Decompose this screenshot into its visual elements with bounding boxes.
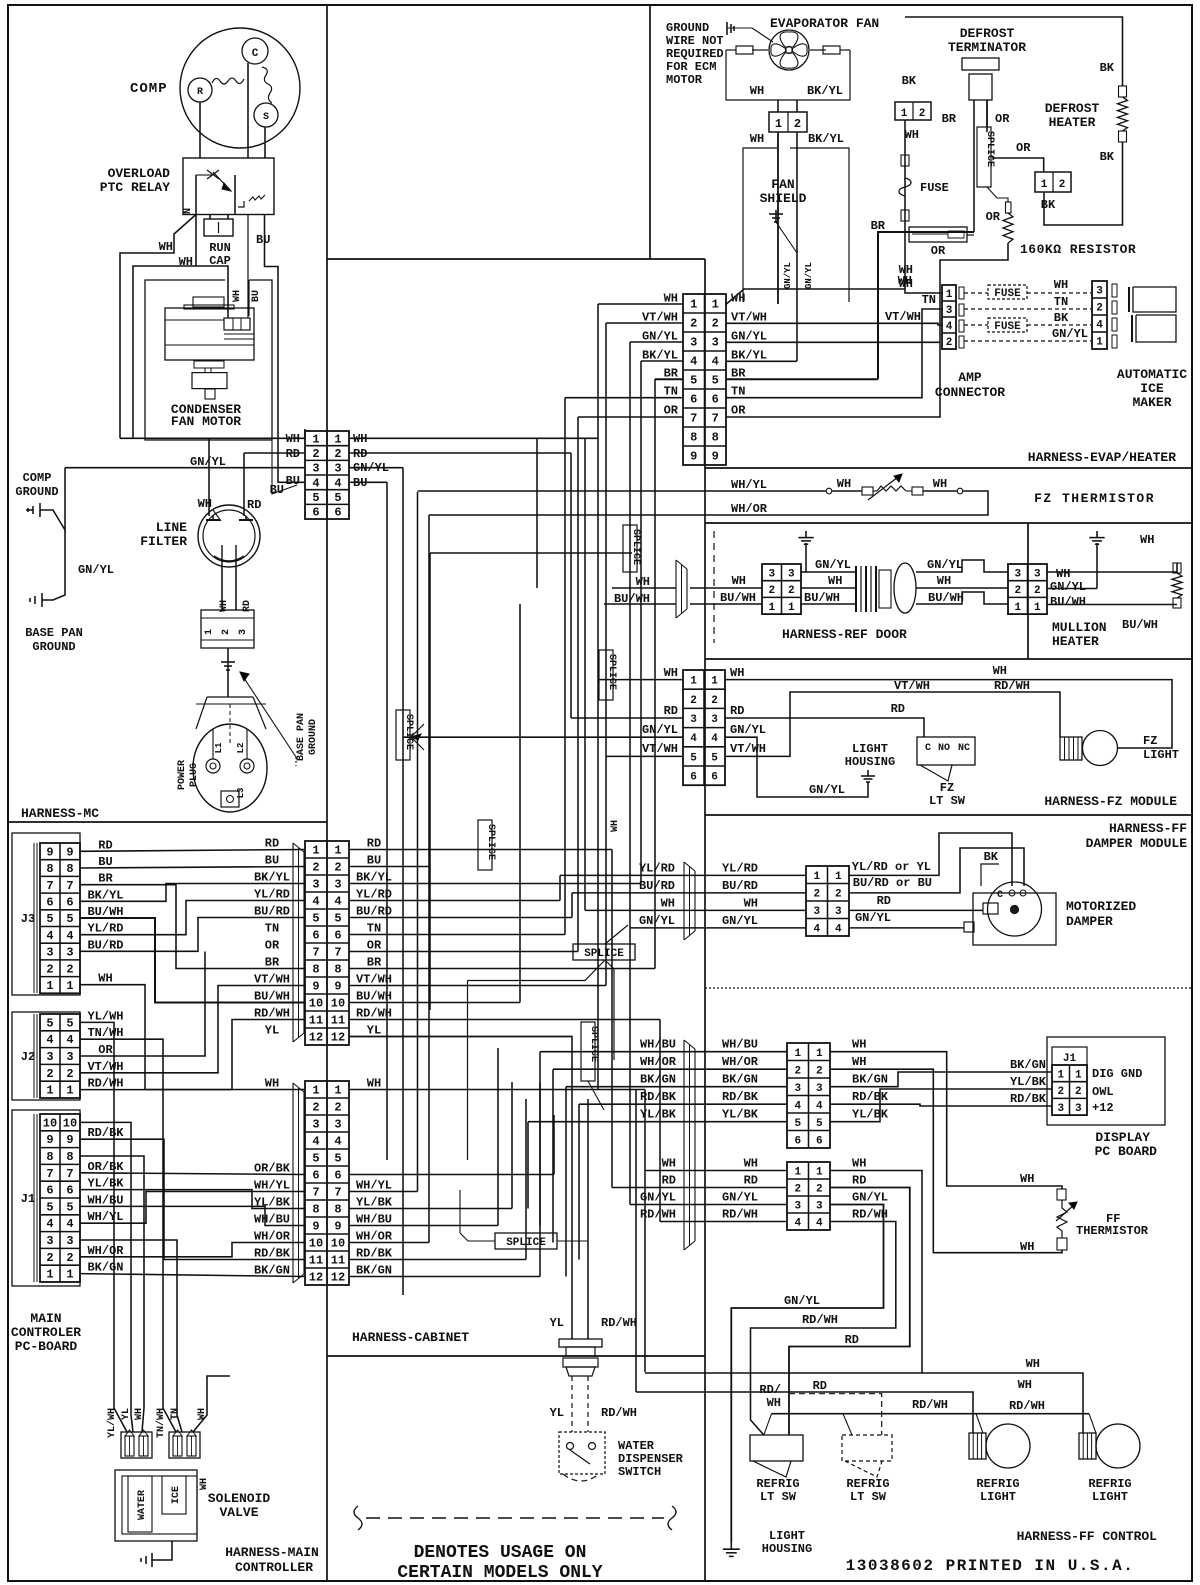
svg-text:BU: BU bbox=[251, 290, 262, 302]
svg-text:RD/WH: RD/WH bbox=[1009, 1399, 1045, 1413]
svg-text:HARNESS-FF CONTROL: HARNESS-FF CONTROL bbox=[1017, 1529, 1158, 1544]
svg-text:PLUG: PLUG bbox=[189, 763, 200, 787]
svg-text:J1: J1 bbox=[21, 1192, 35, 1206]
svg-text:PC-BOARD: PC-BOARD bbox=[15, 1339, 78, 1354]
svg-text:6: 6 bbox=[334, 929, 341, 943]
svg-text:RD: RD bbox=[891, 702, 905, 716]
svg-text:PC BOARD: PC BOARD bbox=[1095, 1144, 1158, 1159]
svg-text:5: 5 bbox=[334, 912, 341, 926]
svg-text:12: 12 bbox=[331, 1271, 345, 1285]
svg-text:NC: NC bbox=[958, 743, 970, 754]
svg-text:GN/YL: GN/YL bbox=[852, 1191, 888, 1205]
svg-text:BU/RD or BU: BU/RD or BU bbox=[853, 876, 932, 890]
svg-text:4: 4 bbox=[66, 1217, 73, 1231]
svg-text:2: 2 bbox=[946, 337, 953, 349]
svg-text:SPLICE: SPLICE bbox=[606, 654, 617, 690]
svg-text:2: 2 bbox=[768, 585, 775, 597]
svg-text:2: 2 bbox=[334, 447, 341, 461]
svg-text:GROUND: GROUND bbox=[32, 640, 75, 654]
svg-text:GN/YL: GN/YL bbox=[784, 1294, 820, 1308]
svg-text:ICE: ICE bbox=[171, 1486, 182, 1504]
svg-text:5: 5 bbox=[66, 1016, 73, 1030]
svg-text:2: 2 bbox=[312, 447, 319, 461]
svg-text:LIGHT: LIGHT bbox=[769, 1529, 805, 1543]
svg-text:ICE: ICE bbox=[1140, 381, 1164, 396]
svg-text:WH: WH bbox=[1020, 1172, 1034, 1186]
svg-text:10: 10 bbox=[63, 1116, 77, 1130]
svg-text:WH: WH bbox=[730, 666, 744, 680]
svg-text:WH/BU: WH/BU bbox=[254, 1213, 290, 1227]
svg-text:2: 2 bbox=[919, 108, 926, 120]
svg-text:7: 7 bbox=[66, 1167, 73, 1181]
svg-text:1: 1 bbox=[1014, 602, 1021, 614]
svg-text:1: 1 bbox=[816, 1048, 823, 1060]
svg-text:WH: WH bbox=[993, 664, 1007, 678]
svg-text:GN/YL: GN/YL bbox=[722, 914, 758, 928]
svg-text:3: 3 bbox=[768, 568, 775, 580]
svg-text:2: 2 bbox=[1075, 1086, 1082, 1098]
svg-text:11: 11 bbox=[331, 1254, 345, 1268]
svg-text:R: R bbox=[197, 87, 203, 98]
svg-text:4: 4 bbox=[711, 733, 718, 745]
svg-text:2: 2 bbox=[1014, 585, 1021, 597]
svg-text:YL/RD: YL/RD bbox=[722, 861, 758, 875]
svg-text:9: 9 bbox=[66, 1133, 73, 1147]
svg-text:RD: RD bbox=[286, 447, 300, 461]
svg-text:RUN: RUN bbox=[209, 241, 231, 255]
svg-text:BU: BU bbox=[98, 855, 112, 869]
svg-text:9: 9 bbox=[334, 1220, 341, 1234]
svg-text:VT/WH: VT/WH bbox=[254, 973, 290, 987]
svg-text:WH: WH bbox=[610, 820, 621, 832]
svg-text:C: C bbox=[997, 890, 1003, 901]
svg-text:FAN: FAN bbox=[771, 177, 794, 192]
svg-text:1: 1 bbox=[788, 602, 795, 614]
svg-text:FUSE: FUSE bbox=[994, 288, 1021, 300]
svg-text:10: 10 bbox=[331, 997, 345, 1011]
svg-text:WH: WH bbox=[898, 274, 912, 288]
svg-text:SPLICE: SPLICE bbox=[584, 948, 624, 960]
svg-text:6: 6 bbox=[690, 393, 697, 407]
svg-text:7: 7 bbox=[46, 1167, 53, 1181]
svg-text:3: 3 bbox=[788, 568, 795, 580]
svg-text:2: 2 bbox=[334, 861, 341, 875]
svg-text:BR: BR bbox=[367, 956, 382, 970]
svg-text:11: 11 bbox=[309, 1254, 323, 1268]
svg-text:WH: WH bbox=[750, 132, 764, 146]
svg-text:FUSE: FUSE bbox=[994, 321, 1021, 333]
svg-text:RD/WH: RD/WH bbox=[601, 1406, 637, 1420]
svg-text:5: 5 bbox=[312, 912, 319, 926]
svg-text:WH: WH bbox=[265, 1077, 279, 1091]
svg-text:CONTROLLER: CONTROLLER bbox=[235, 1560, 313, 1575]
svg-text:1: 1 bbox=[794, 1048, 801, 1060]
svg-text:1: 1 bbox=[46, 1268, 53, 1282]
svg-text:S: S bbox=[263, 112, 269, 123]
svg-text:RD/BK: RD/BK bbox=[254, 1247, 291, 1261]
svg-text:WH: WH bbox=[198, 497, 212, 511]
svg-text:YL: YL bbox=[550, 1406, 564, 1420]
svg-text:9: 9 bbox=[46, 1133, 53, 1147]
svg-text:RD/WH: RD/WH bbox=[87, 1077, 123, 1091]
svg-text:7: 7 bbox=[312, 1186, 319, 1200]
svg-text:FILTER: FILTER bbox=[140, 534, 187, 549]
svg-text:RD/WH: RD/WH bbox=[912, 1398, 948, 1412]
svg-text:DAMPER: DAMPER bbox=[1066, 914, 1113, 929]
svg-text:GROUND: GROUND bbox=[15, 485, 58, 499]
svg-text:10: 10 bbox=[309, 997, 323, 1011]
svg-text:3: 3 bbox=[312, 462, 319, 476]
svg-text:HARNESS-MC: HARNESS-MC bbox=[21, 806, 99, 821]
svg-text:BK/YL: BK/YL bbox=[87, 888, 123, 902]
svg-text:1: 1 bbox=[66, 979, 73, 993]
svg-text:OR: OR bbox=[1016, 141, 1031, 155]
svg-text:C: C bbox=[252, 48, 259, 60]
svg-text:RD: RD bbox=[662, 1174, 676, 1188]
svg-text:BU/RD: BU/RD bbox=[639, 879, 675, 893]
svg-text:2: 2 bbox=[1059, 179, 1066, 191]
svg-text:5: 5 bbox=[334, 491, 341, 505]
svg-text:12: 12 bbox=[309, 1271, 323, 1285]
svg-text:10: 10 bbox=[331, 1237, 345, 1251]
svg-text:WH/YL: WH/YL bbox=[254, 1179, 290, 1193]
svg-text:4: 4 bbox=[334, 476, 341, 490]
svg-text:WH: WH bbox=[664, 666, 678, 680]
svg-text:6: 6 bbox=[312, 929, 319, 943]
svg-text:SPLICE: SPLICE bbox=[506, 1237, 546, 1249]
svg-text:6: 6 bbox=[712, 393, 719, 407]
svg-text:10: 10 bbox=[309, 1237, 323, 1251]
svg-text:4: 4 bbox=[816, 1218, 823, 1230]
svg-text:TN/WH: TN/WH bbox=[87, 1026, 123, 1040]
svg-text:DISPENSER: DISPENSER bbox=[618, 1452, 684, 1466]
svg-text:OWL: OWL bbox=[1092, 1085, 1114, 1099]
svg-text:WH: WH bbox=[98, 972, 112, 986]
svg-text:8: 8 bbox=[712, 431, 719, 445]
svg-text:GN/YL: GN/YL bbox=[1050, 580, 1086, 594]
svg-text:VT/WH: VT/WH bbox=[731, 310, 767, 324]
svg-text:5: 5 bbox=[712, 374, 719, 388]
svg-text:BK: BK bbox=[1041, 198, 1056, 212]
svg-text:1: 1 bbox=[312, 844, 319, 858]
svg-text:1: 1 bbox=[66, 1268, 73, 1282]
svg-text:DEFROST: DEFROST bbox=[960, 26, 1015, 41]
svg-text:BR: BR bbox=[265, 956, 280, 970]
svg-text:2: 2 bbox=[46, 962, 53, 976]
svg-text:LT SW: LT SW bbox=[850, 1490, 887, 1504]
svg-text:WATER: WATER bbox=[618, 1439, 655, 1453]
svg-text:WH/YL: WH/YL bbox=[731, 478, 767, 492]
svg-text:MOTORIZED: MOTORIZED bbox=[1066, 899, 1136, 914]
svg-text:N: N bbox=[183, 208, 194, 214]
svg-text:C: C bbox=[925, 743, 931, 754]
svg-text:1: 1 bbox=[334, 844, 341, 858]
svg-text:BU/WH: BU/WH bbox=[254, 990, 290, 1004]
svg-text:LINE: LINE bbox=[156, 520, 187, 535]
svg-text:1: 1 bbox=[312, 1084, 319, 1098]
svg-text:FOR ECM: FOR ECM bbox=[666, 60, 716, 74]
svg-text:1: 1 bbox=[1096, 337, 1103, 349]
svg-text:3: 3 bbox=[46, 1050, 53, 1064]
svg-text:WH: WH bbox=[664, 291, 678, 305]
svg-text:RD/BK: RD/BK bbox=[722, 1090, 759, 1104]
svg-text:YL/RD: YL/RD bbox=[254, 888, 290, 902]
svg-text:BASE PAN: BASE PAN bbox=[296, 713, 307, 761]
svg-text:12: 12 bbox=[331, 1031, 345, 1045]
svg-text:WH: WH bbox=[232, 290, 243, 302]
svg-text:LIGHT: LIGHT bbox=[852, 742, 888, 756]
svg-text:1: 1 bbox=[46, 979, 53, 993]
svg-text:REFRIG: REFRIG bbox=[1088, 1477, 1131, 1491]
svg-text:7: 7 bbox=[46, 879, 53, 893]
svg-text:TN: TN bbox=[367, 922, 381, 936]
svg-text:WH: WH bbox=[744, 1157, 758, 1171]
svg-text:2: 2 bbox=[46, 1251, 53, 1265]
svg-text:VT/WH: VT/WH bbox=[642, 742, 678, 756]
svg-text:5: 5 bbox=[690, 752, 697, 764]
svg-text:BASE PAN: BASE PAN bbox=[25, 626, 83, 640]
svg-text:GN/YL: GN/YL bbox=[731, 329, 767, 343]
svg-text:REFRIG: REFRIG bbox=[756, 1477, 799, 1491]
svg-text:TN: TN bbox=[265, 922, 279, 936]
svg-text:WH: WH bbox=[732, 574, 746, 588]
svg-text:1: 1 bbox=[712, 298, 719, 312]
svg-text:8: 8 bbox=[690, 431, 697, 445]
svg-text:3: 3 bbox=[312, 878, 319, 892]
svg-text:160KΩ RESISTOR: 160KΩ RESISTOR bbox=[1020, 242, 1136, 257]
svg-text:RD/BK: RD/BK bbox=[640, 1090, 677, 1104]
svg-text:WH/YL: WH/YL bbox=[356, 1179, 392, 1193]
svg-text:DENOTES USAGE ON: DENOTES USAGE ON bbox=[414, 1543, 587, 1563]
svg-text:8: 8 bbox=[66, 862, 73, 876]
svg-text:MAIN: MAIN bbox=[30, 1311, 61, 1326]
svg-text:5: 5 bbox=[46, 1016, 53, 1030]
svg-text:4: 4 bbox=[690, 733, 697, 745]
svg-text:GN/YL: GN/YL bbox=[815, 558, 851, 572]
svg-text:WH: WH bbox=[636, 575, 650, 589]
svg-text:3: 3 bbox=[813, 906, 820, 918]
svg-text:6: 6 bbox=[711, 772, 718, 784]
svg-text:3: 3 bbox=[690, 714, 697, 726]
svg-text:1: 1 bbox=[768, 602, 775, 614]
svg-text:GN/YL: GN/YL bbox=[640, 1191, 676, 1205]
svg-text:1: 1 bbox=[946, 289, 953, 301]
svg-text:4: 4 bbox=[46, 929, 53, 943]
svg-text:DIG GND: DIG GND bbox=[1092, 1067, 1142, 1081]
svg-text:REFRIG: REFRIG bbox=[976, 1477, 1019, 1491]
svg-text:6: 6 bbox=[690, 772, 697, 784]
svg-text:8: 8 bbox=[312, 963, 319, 977]
svg-text:BK/YL: BK/YL bbox=[807, 84, 843, 98]
svg-text:1: 1 bbox=[334, 432, 341, 446]
svg-text:3: 3 bbox=[1096, 286, 1103, 298]
svg-text:2: 2 bbox=[1057, 1086, 1064, 1098]
svg-text:4: 4 bbox=[312, 476, 319, 490]
svg-text:2: 2 bbox=[1096, 303, 1103, 315]
svg-text:GN/YL: GN/YL bbox=[730, 723, 766, 737]
svg-text:HARNESS-FF: HARNESS-FF bbox=[1109, 821, 1187, 836]
svg-text:BU/WH: BU/WH bbox=[928, 591, 964, 605]
svg-text:BK/GN: BK/GN bbox=[722, 1073, 758, 1087]
svg-text:RD: RD bbox=[845, 1333, 859, 1347]
svg-text:7: 7 bbox=[334, 946, 341, 960]
svg-text:SHIELD: SHIELD bbox=[760, 191, 807, 206]
svg-text:3: 3 bbox=[794, 1083, 801, 1095]
svg-text:BK/GN: BK/GN bbox=[852, 1073, 888, 1087]
svg-text:9: 9 bbox=[66, 845, 73, 859]
svg-text:WH/BU: WH/BU bbox=[640, 1038, 676, 1052]
svg-text:2: 2 bbox=[794, 1184, 801, 1196]
svg-text:RD/BK: RD/BK bbox=[1010, 1092, 1047, 1106]
svg-text:3: 3 bbox=[1014, 568, 1021, 580]
svg-text:FZ: FZ bbox=[940, 781, 954, 795]
svg-text:WH: WH bbox=[852, 1038, 866, 1052]
svg-text:7: 7 bbox=[690, 412, 697, 426]
svg-text:BU/WH: BU/WH bbox=[804, 591, 840, 605]
svg-text:1: 1 bbox=[711, 676, 718, 688]
svg-text:WH: WH bbox=[837, 477, 851, 491]
svg-text:HOUSING: HOUSING bbox=[845, 755, 895, 769]
svg-text:WH: WH bbox=[933, 477, 947, 491]
svg-text:2: 2 bbox=[813, 888, 820, 900]
svg-text:GN/YL: GN/YL bbox=[642, 329, 678, 343]
svg-text:HEATER: HEATER bbox=[1052, 634, 1099, 649]
svg-text:3: 3 bbox=[312, 1118, 319, 1132]
svg-text:3: 3 bbox=[46, 946, 53, 960]
svg-text:SPLICE: SPLICE bbox=[630, 529, 641, 565]
svg-text:WH: WH bbox=[937, 574, 951, 588]
svg-text:VT/WH: VT/WH bbox=[87, 1060, 123, 1074]
svg-text:1: 1 bbox=[1057, 1069, 1064, 1081]
svg-text:YL/BK: YL/BK bbox=[1010, 1075, 1047, 1089]
svg-text:WH/OR: WH/OR bbox=[640, 1055, 677, 1069]
svg-text:MAKER: MAKER bbox=[1132, 395, 1171, 410]
svg-text:5: 5 bbox=[66, 912, 73, 926]
svg-text:BU/WH: BU/WH bbox=[87, 905, 123, 919]
svg-text:5: 5 bbox=[690, 374, 697, 388]
svg-text:12: 12 bbox=[309, 1031, 323, 1045]
svg-text:BK/GN: BK/GN bbox=[87, 1261, 123, 1275]
svg-text:BU: BU bbox=[286, 474, 300, 488]
svg-text:11: 11 bbox=[331, 1014, 345, 1028]
svg-text:BK/YL: BK/YL bbox=[642, 348, 678, 362]
svg-text:WH: WH bbox=[744, 896, 758, 910]
svg-text:GN/YL: GN/YL bbox=[927, 558, 963, 572]
svg-text:WH/BU: WH/BU bbox=[356, 1213, 392, 1227]
svg-text:9: 9 bbox=[46, 845, 53, 859]
svg-text:L2: L2 bbox=[236, 743, 246, 754]
svg-text:BU/RD: BU/RD bbox=[87, 938, 123, 952]
svg-text:GROUND: GROUND bbox=[666, 21, 709, 35]
svg-text:VALVE: VALVE bbox=[219, 1505, 258, 1520]
svg-text:2: 2 bbox=[816, 1065, 823, 1077]
svg-text:BU/RD: BU/RD bbox=[722, 879, 758, 893]
svg-text:6: 6 bbox=[46, 1184, 53, 1198]
svg-text:TERMINATOR: TERMINATOR bbox=[948, 40, 1026, 55]
svg-text:1: 1 bbox=[835, 871, 842, 883]
svg-text:J2: J2 bbox=[21, 1050, 35, 1064]
svg-text:5: 5 bbox=[794, 1118, 801, 1130]
svg-text:HEATER: HEATER bbox=[1049, 115, 1096, 130]
svg-text:4: 4 bbox=[46, 1033, 53, 1047]
svg-text:11: 11 bbox=[309, 1014, 323, 1028]
svg-text:THERMISTOR: THERMISTOR bbox=[1076, 1224, 1149, 1238]
svg-text:RD/BK: RD/BK bbox=[356, 1247, 393, 1261]
svg-text:5: 5 bbox=[334, 1152, 341, 1166]
svg-text:2: 2 bbox=[221, 629, 232, 635]
svg-text:SPLICE: SPLICE bbox=[588, 1026, 599, 1062]
svg-text:3: 3 bbox=[334, 462, 341, 476]
svg-text:WATER: WATER bbox=[137, 1490, 148, 1520]
svg-text:YL/BK: YL/BK bbox=[722, 1108, 759, 1122]
svg-text:LIGHT: LIGHT bbox=[980, 1490, 1016, 1504]
svg-text:WH: WH bbox=[1056, 567, 1070, 581]
svg-text:6: 6 bbox=[794, 1135, 801, 1147]
svg-text:YL/WH: YL/WH bbox=[87, 1009, 123, 1023]
svg-text:BU/WH: BU/WH bbox=[1122, 618, 1158, 632]
svg-text:BU/RD: BU/RD bbox=[254, 905, 290, 919]
svg-text:4: 4 bbox=[712, 355, 719, 369]
svg-text:6: 6 bbox=[46, 895, 53, 909]
svg-text:3: 3 bbox=[66, 946, 73, 960]
svg-text:2: 2 bbox=[46, 1067, 53, 1081]
svg-text:9: 9 bbox=[312, 980, 319, 994]
svg-text:6: 6 bbox=[334, 506, 341, 520]
svg-text:GN/YL: GN/YL bbox=[809, 783, 845, 797]
svg-text:HARNESS-EVAP/HEATER: HARNESS-EVAP/HEATER bbox=[1028, 450, 1176, 465]
svg-text:2: 2 bbox=[66, 1251, 73, 1265]
svg-text:YL/BK: YL/BK bbox=[640, 1108, 677, 1122]
svg-text:BU/WH: BU/WH bbox=[720, 591, 756, 605]
svg-text:4: 4 bbox=[946, 321, 953, 333]
svg-text:HARNESS-FZ MODULE: HARNESS-FZ MODULE bbox=[1044, 794, 1177, 809]
svg-text:AUTOMATIC: AUTOMATIC bbox=[1117, 367, 1187, 382]
svg-text:5: 5 bbox=[711, 752, 718, 764]
svg-text:WH/OR: WH/OR bbox=[87, 1244, 124, 1258]
svg-text:WH: WH bbox=[661, 896, 675, 910]
svg-text:BK: BK bbox=[984, 850, 999, 864]
svg-text:WH: WH bbox=[1054, 278, 1068, 292]
svg-text:7: 7 bbox=[334, 1186, 341, 1200]
svg-text:WH: WH bbox=[1140, 533, 1154, 547]
svg-text:1: 1 bbox=[794, 1167, 801, 1179]
svg-text:GN/YL: GN/YL bbox=[804, 262, 814, 289]
svg-text:RD: RD bbox=[730, 704, 744, 718]
svg-text:4: 4 bbox=[794, 1218, 801, 1230]
svg-text:1: 1 bbox=[1034, 602, 1041, 614]
svg-text:OR: OR bbox=[367, 939, 382, 953]
svg-text:2: 2 bbox=[312, 1101, 319, 1115]
svg-text:3: 3 bbox=[238, 629, 249, 635]
svg-text:4: 4 bbox=[46, 1217, 53, 1231]
svg-text:YL: YL bbox=[265, 1024, 279, 1038]
svg-text:FAN MOTOR: FAN MOTOR bbox=[171, 414, 241, 429]
svg-text:GN/YL: GN/YL bbox=[642, 723, 678, 737]
svg-text:FZ: FZ bbox=[1143, 734, 1157, 748]
svg-text:SPLICE: SPLICE bbox=[485, 824, 496, 860]
svg-text:GN/YL: GN/YL bbox=[78, 563, 114, 577]
svg-text:SPLICE: SPLICE bbox=[984, 131, 995, 167]
svg-text:GN/YL: GN/YL bbox=[722, 1191, 758, 1205]
svg-text:4: 4 bbox=[66, 929, 73, 943]
svg-text:J3: J3 bbox=[21, 912, 35, 926]
svg-text:8: 8 bbox=[334, 1203, 341, 1217]
svg-text:2: 2 bbox=[690, 695, 697, 707]
svg-text:5: 5 bbox=[66, 1200, 73, 1214]
svg-text:MULLION: MULLION bbox=[1052, 620, 1107, 635]
svg-text:2: 2 bbox=[794, 1065, 801, 1077]
svg-text:RD: RD bbox=[744, 1174, 758, 1188]
